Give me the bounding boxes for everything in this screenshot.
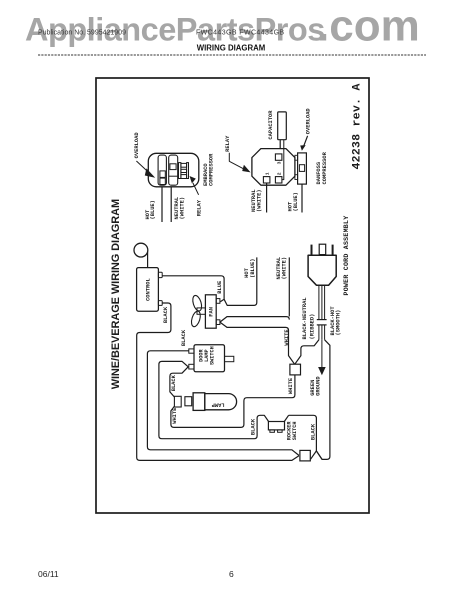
svg-text:1: 1 [265, 172, 271, 175]
svg-text:BLACK: BLACK [171, 374, 177, 391]
svg-text:2: 2 [277, 172, 283, 175]
svg-text:FAN: FAN [209, 307, 215, 317]
svg-text:(WHITE): (WHITE) [282, 257, 288, 280]
svg-text:6: 6 [229, 569, 234, 579]
svg-text:Publication No. 5995421909: Publication No. 5995421909 [38, 30, 126, 37]
svg-text:OVERLOAD: OVERLOAD [305, 108, 311, 135]
svg-text:BLACK-NEUTRAL: BLACK-NEUTRAL [302, 297, 308, 339]
svg-text:.com: .com [317, 2, 420, 51]
svg-text:WIRING DIAGRAM: WIRING DIAGRAM [197, 44, 265, 53]
svg-text:(WHITE): (WHITE) [256, 189, 262, 212]
svg-text:06/11: 06/11 [38, 569, 59, 579]
svg-text:COMPRESSOR: COMPRESSOR [322, 151, 328, 184]
svg-text:(RIBBED): (RIBBED) [310, 314, 316, 340]
svg-text:BLACK: BLACK [181, 329, 187, 346]
svg-text:BLACK: BLACK [163, 306, 169, 323]
svg-text:(WHITE): (WHITE) [180, 197, 186, 220]
svg-text:SWITCH: SWITCH [210, 346, 216, 365]
svg-text:GROUND: GROUND [316, 376, 322, 396]
svg-text:FWC443GB FWC4434GB: FWC443GB FWC4434GB [196, 30, 285, 37]
svg-text:3: 3 [277, 161, 283, 164]
svg-text:(BLUE): (BLUE) [250, 258, 256, 277]
svg-text:OVERLOAD: OVERLOAD [134, 132, 140, 159]
svg-text:CAPACITOR: CAPACITOR [268, 110, 274, 140]
svg-text:BLUE: BLUE [217, 280, 223, 294]
svg-text:WINE/BEVERAGE WIRING DIAGRAM: WINE/BEVERAGE WIRING DIAGRAM [110, 199, 122, 389]
svg-text:BLACK: BLACK [311, 423, 317, 440]
svg-text:42238 rev. A: 42238 rev. A [351, 83, 363, 169]
svg-text:WHITE: WHITE [288, 377, 294, 394]
svg-text:(SMOOTH): (SMOOTH) [336, 310, 342, 336]
svg-text:WHITE: WHITE [172, 407, 178, 424]
svg-text:(BLUE): (BLUE) [293, 192, 299, 211]
svg-text:BLACK: BLACK [250, 418, 256, 435]
svg-text:POWER CORD ASSEMBLY: POWER CORD ASSEMBLY [343, 216, 350, 296]
svg-text:SWITCH: SWITCH [292, 422, 298, 441]
svg-text:RELAY: RELAY [196, 199, 202, 216]
svg-text:CONTROL: CONTROL [145, 278, 151, 301]
svg-text:LAMP: LAMP [212, 402, 225, 408]
svg-text:WHITE: WHITE [284, 329, 290, 346]
svg-text:COMPRESSOR: COMPRESSOR [209, 153, 215, 186]
svg-text:(BLUE): (BLUE) [150, 200, 156, 219]
svg-text:RELAY: RELAY [225, 135, 231, 152]
